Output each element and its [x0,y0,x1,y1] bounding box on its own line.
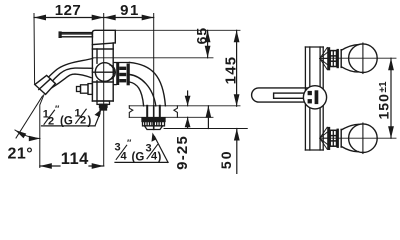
lever rod [59,32,92,37]
diverter knob circle [92,63,115,82]
extension line hose shank center [153,14,155,130]
dimension 9-25 [174,91,191,170]
dimension 127 [34,2,104,20]
dimension 65 [194,27,211,58]
svg-text:″: ″ [127,138,132,148]
nut bottom extension line [164,128,247,130]
svg-text:91: 91 [120,2,140,19]
inner dim line deck-to-nut [206,106,212,129]
dimension 114 [40,150,104,169]
dimension 50 [218,129,240,175]
svg-text:150: 150 [376,93,392,119]
nut below deck (3/4 connection) [142,118,165,130]
shank through deck [147,106,160,130]
dimension 145 [222,30,239,106]
svg-text:21°: 21° [8,146,34,163]
dimension 150+-1 [376,58,394,138]
21 degree jet ray angled [16,96,43,138]
top handle (egg) [341,43,377,74]
svg-text:″: ″ [55,104,60,114]
svg-text:65: 65 [194,27,210,45]
svg-text:114: 114 [61,150,89,168]
lever handle top view [252,88,313,102]
bottom connection nut [327,127,339,150]
side fitting on body left [77,84,93,95]
bottom fitting (1/2 connection) [97,101,110,110]
bottom handle (egg) [341,123,377,154]
svg-text:127: 127 [55,2,82,19]
dimension 91 [104,2,154,20]
svg-text:9-25: 9-25 [174,135,191,170]
21 degree jet ray vertical [40,95,44,168]
label 1/2 (G 1/2) [43,104,92,128]
21 degree arc [15,130,40,141]
hose coupling nut [113,63,130,86]
svg-text:): ) [158,152,162,164]
leader to 3/4 nut [152,133,169,163]
faucet body [92,30,115,101]
top centerline [323,57,396,59]
svg-text:(G: (G [132,152,145,164]
bottom connection cone [320,127,327,149]
svg-text:50: 50 [218,150,234,170]
top extension line [115,29,240,31]
centerline of body [103,14,105,167]
spout tip (aerator) [35,75,56,94]
label 3/4 (G 3/4) [115,138,162,164]
svg-text:145: 145 [222,56,239,85]
top connection nut [327,47,339,70]
bottom centerline [323,137,396,139]
hose elbow outlet [130,62,166,105]
top connection cone [320,48,327,70]
svg-text:±1: ±1 [378,81,389,92]
body column [305,47,323,150]
cartridge circle top view [303,86,326,109]
extension line for 65 (top of outlet) [93,57,213,59]
leader to 1/2 fitting [95,109,102,126]
mounting deck [129,106,240,118]
spout [46,59,93,89]
extension line left (spout tip) [33,14,36,85]
